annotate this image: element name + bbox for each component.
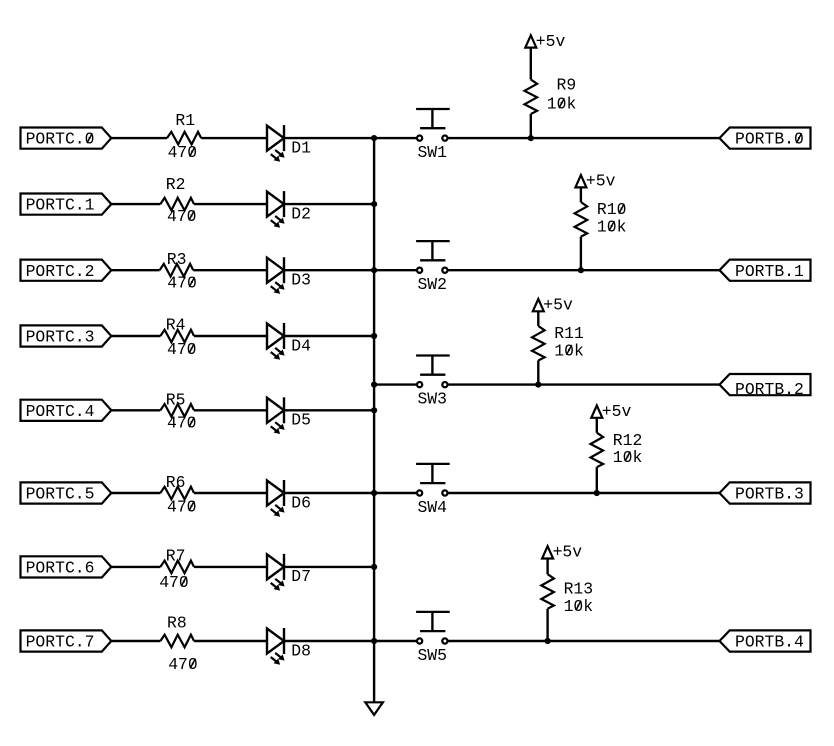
wire (111, 492, 160, 494)
wire (284, 335, 374, 337)
wire (284, 640, 374, 642)
LED D4 (267, 323, 285, 360)
svg-text:470: 470 (167, 340, 197, 359)
wire (194, 335, 267, 337)
svg-text:PORTB.3: PORTB.3 (735, 485, 804, 504)
svg-text:R13: R13 (564, 580, 594, 599)
svg-text:+5v: +5v (543, 296, 573, 315)
resistor R10 pull-up (575, 202, 588, 237)
wire (284, 492, 374, 494)
wire (111, 335, 160, 337)
wire ground bus (373, 138, 375, 702)
resistor R1 (167, 132, 201, 145)
LED D5 (267, 397, 285, 434)
wire (580, 187, 582, 202)
resistor R11 pull-up (532, 326, 545, 361)
switch SW2 (push-button) (416, 241, 450, 273)
wire (530, 114, 532, 138)
svg-text:R9: R9 (557, 76, 577, 95)
LED D2 (267, 191, 285, 228)
svg-text:SW3: SW3 (417, 389, 447, 408)
svg-text:D2: D2 (291, 204, 311, 223)
svg-text:PORTC.3: PORTC.3 (26, 328, 95, 347)
svg-text:D6: D6 (291, 493, 311, 512)
wire (537, 361, 539, 385)
wire (194, 640, 267, 642)
wire (448, 383, 720, 385)
svg-text:+5v: +5v (553, 543, 583, 562)
svg-text:D8: D8 (291, 641, 311, 660)
svg-text:R4: R4 (166, 315, 186, 334)
ground (365, 702, 383, 715)
resistor R8 (160, 635, 194, 648)
resistor R9 pull-up (525, 80, 538, 115)
wire (448, 137, 720, 139)
svg-text:D7: D7 (291, 567, 311, 586)
node R12 tap junction (594, 490, 600, 496)
wire (537, 311, 539, 326)
wire (111, 137, 167, 139)
port tag PORTB.0 (720, 128, 811, 149)
switch SW1 (push-button) (416, 109, 450, 141)
node R13 tap junction (545, 638, 551, 644)
switch SW3 (push-button) (416, 356, 450, 388)
wire (193, 269, 267, 271)
port tag PORTC.2 (21, 260, 112, 281)
wire (546, 609, 548, 641)
resistor R3 (160, 264, 194, 277)
wire (201, 137, 267, 139)
wire (596, 467, 598, 493)
wire (580, 237, 582, 271)
node bus junction SW3 row (371, 382, 377, 388)
wire (284, 566, 374, 568)
port tag PORTC.3 (21, 325, 112, 346)
node bus junction row 8 (371, 638, 377, 644)
node R10 tap junction (578, 267, 584, 273)
svg-text:R7: R7 (166, 547, 186, 566)
LED D3 (267, 257, 285, 294)
resistor R6 (160, 487, 194, 500)
port tag PORTB.4 (720, 630, 811, 651)
wire (448, 640, 720, 642)
value 10k (R9) (547, 95, 577, 114)
port tag PORTB.2 (720, 374, 811, 399)
value 470 (R5) (167, 414, 197, 433)
node bus junction row 7 (371, 564, 377, 570)
resistor R4 (160, 330, 194, 343)
wire (374, 269, 417, 271)
svg-text:R6: R6 (166, 473, 186, 492)
node bus junction row 5 (371, 407, 377, 413)
node bus junction row 6 (371, 490, 377, 496)
value 10k (R12) (613, 448, 643, 467)
switch SW5 (push-button) (416, 612, 450, 644)
port tag PORTC.7 (21, 630, 112, 651)
svg-text:PORTC.1: PORTC.1 (26, 196, 95, 215)
wire (111, 409, 160, 411)
svg-text:SW1: SW1 (417, 143, 447, 162)
wire (374, 640, 417, 642)
svg-text:SW2: SW2 (417, 275, 447, 294)
switch SW4 (push-button) (416, 464, 450, 496)
svg-text:470: 470 (167, 207, 197, 226)
svg-text:D5: D5 (291, 411, 311, 430)
value 470 (R1) (168, 143, 198, 162)
svg-text:470: 470 (168, 655, 198, 674)
svg-text:PORTC.6: PORTC.6 (26, 559, 95, 578)
node bus junction row 3 (371, 267, 377, 273)
label R10 (597, 200, 627, 219)
node bus junction row 2 (371, 201, 377, 207)
resistor R5 (160, 404, 194, 417)
resistor R12 pull-up (591, 433, 604, 468)
value 470 (R4) (167, 340, 197, 359)
power +5v (R13) (542, 543, 582, 562)
wire (546, 559, 548, 575)
svg-text:PORTB.1: PORTB.1 (735, 262, 804, 281)
svg-text:R8: R8 (167, 614, 187, 633)
wire (111, 203, 160, 205)
port tag PORTB.1 (720, 260, 811, 281)
svg-text:PORTB.4: PORTB.4 (735, 633, 804, 652)
svg-text:+5v: +5v (586, 172, 616, 191)
node bus junction row 4 (371, 333, 377, 339)
svg-text:470: 470 (168, 143, 198, 162)
LED D8 (267, 628, 285, 665)
svg-text:D4: D4 (291, 336, 311, 355)
svg-text:470: 470 (167, 274, 197, 293)
wire (284, 409, 374, 411)
wire (111, 640, 160, 642)
svg-text:R1: R1 (175, 111, 195, 130)
wire (111, 566, 160, 568)
power +5v (R10) (575, 172, 615, 191)
svg-text:R10: R10 (597, 200, 627, 219)
port tag PORTC.6 (21, 556, 112, 577)
node R9 tap junction (528, 135, 534, 141)
wire (284, 269, 374, 271)
svg-text:PORTC.5: PORTC.5 (26, 485, 95, 504)
svg-text:R11: R11 (554, 324, 584, 343)
value 470 (R3) (167, 274, 197, 293)
svg-text:PORTC.7: PORTC.7 (26, 633, 95, 652)
wire (448, 492, 720, 494)
value 10k (R10) (597, 217, 627, 236)
svg-text:470: 470 (167, 497, 197, 516)
wire (596, 418, 598, 433)
resistor R2 (160, 198, 194, 211)
port tag PORTC.0 (21, 128, 112, 149)
LED D1 (267, 125, 285, 162)
svg-text:D1: D1 (291, 138, 311, 157)
power +5v (R11) (533, 296, 573, 315)
svg-text:D3: D3 (291, 271, 311, 290)
port tag PORTC.1 (21, 194, 112, 215)
resistor R13 pull-up (541, 574, 554, 609)
svg-text:SW5: SW5 (417, 646, 447, 665)
wire (194, 203, 267, 205)
wire (530, 48, 532, 80)
svg-text:R3: R3 (167, 250, 187, 269)
wire (111, 269, 159, 271)
LED D7 (267, 554, 285, 591)
wire (194, 409, 267, 411)
wire (284, 203, 374, 205)
wire (194, 566, 267, 568)
port tag PORTC.5 (21, 482, 112, 503)
port tag PORTC.4 (21, 400, 112, 421)
svg-text:PORTC.0: PORTC.0 (26, 130, 95, 149)
value 10k (R13) (564, 597, 594, 616)
wire (374, 137, 417, 139)
node bus junction row 1 (371, 135, 377, 141)
LED D6 (267, 480, 285, 517)
svg-text:R2: R2 (166, 175, 186, 194)
value 470 (R8) (168, 655, 198, 674)
value 470 (R7) (159, 573, 189, 592)
wire (374, 383, 417, 385)
svg-text:+5v: +5v (536, 32, 566, 51)
wire (194, 492, 267, 494)
svg-text:PORTB.2: PORTB.2 (735, 380, 804, 399)
wire (448, 269, 720, 271)
wire (374, 492, 417, 494)
port tag PORTB.3 (720, 482, 811, 503)
svg-text:PORTC.2: PORTC.2 (26, 262, 95, 281)
svg-text:+5v: +5v (602, 402, 632, 421)
value 470 (R2) (167, 207, 197, 226)
svg-text:PORTB.0: PORTB.0 (735, 130, 804, 149)
svg-text:470: 470 (159, 573, 189, 592)
wire (284, 137, 374, 139)
svg-text:SW4: SW4 (417, 498, 447, 517)
power +5v (R9) (525, 32, 565, 51)
value 470 (R6) (167, 497, 197, 516)
svg-text:PORTC.4: PORTC.4 (26, 402, 95, 421)
resistor R7 (160, 561, 194, 574)
power +5v (R12) (591, 402, 631, 421)
value 10k (R11) (554, 341, 584, 360)
svg-text:470: 470 (167, 414, 197, 433)
svg-text:R5: R5 (166, 390, 186, 409)
node R11 tap junction (535, 382, 541, 388)
